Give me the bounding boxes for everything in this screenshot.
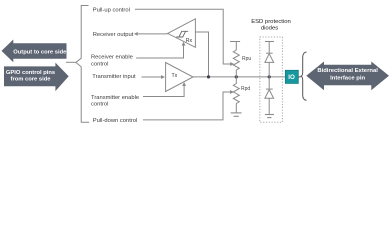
power rail for Rpu — [230, 42, 240, 51]
power rail for top ESD diode — [265, 42, 274, 54]
node junction dot 1 — [207, 75, 210, 78]
svg-text:control: control — [91, 61, 108, 67]
op-amp: receiver buffer Rx triangle — [168, 19, 196, 48]
op-amp: transmitter buffer Tx triangle — [166, 63, 193, 92]
svg-text:Bidirectional External: Bidirectional External — [317, 68, 378, 74]
ground for bottom ESD diode — [265, 115, 274, 118]
node IO pad box — [285, 70, 298, 83]
resistor Rpu — [233, 50, 239, 77]
svg-text:Rx: Rx — [186, 38, 193, 44]
wire pull-up control to Rpu — [135, 9, 231, 64]
svg-text:Pull-down control: Pull-down control — [93, 118, 137, 124]
arrow "Output to core side" — [2, 40, 68, 63]
brace pointing at IO pad — [301, 52, 307, 100]
svg-text:Receiver output: Receiver output — [93, 32, 134, 38]
svg-text:control: control — [91, 101, 108, 107]
svg-text:Rpd: Rpd — [241, 86, 250, 92]
resistor Rpd — [233, 77, 239, 113]
wire pull-down control to Rpd — [143, 92, 230, 120]
dashed box ESD — [260, 37, 283, 122]
svg-text:IO: IO — [288, 74, 295, 81]
node junction dot 2 — [235, 75, 238, 78]
svg-text:Pull-up control: Pull-up control — [93, 7, 130, 13]
arrow "Bidirectional External Interface pin" — [306, 62, 389, 91]
svg-text:Tx: Tx — [172, 73, 178, 79]
svg-text:Transmitter enable: Transmitter enable — [91, 95, 139, 101]
wire IO box to brace — [298, 76, 301, 78]
wire main IO line — [193, 76, 285, 78]
diode D1 (top ESD diode) — [265, 53, 274, 77]
wire transmitter enable — [143, 86, 184, 97]
wire Rx input from IO node — [195, 32, 208, 77]
wire transmitter input — [142, 76, 162, 78]
hysteresis symbol — [176, 31, 185, 37]
wire receiver enable — [136, 45, 183, 58]
diode D2 (bottom ESD diode) — [265, 77, 274, 115]
svg-text:ESD protection: ESD protection — [251, 19, 291, 25]
node junction dot 3 — [268, 75, 271, 78]
svg-text:Output to core side: Output to core side — [13, 50, 67, 56]
ground for Rpd — [231, 113, 242, 116]
svg-text:Transmitter input: Transmitter input — [92, 74, 136, 80]
svg-text:Rpu: Rpu — [242, 56, 251, 62]
bracket grouping control signals — [66, 6, 89, 123]
arrow "GPIO control pins from core side" — [4, 63, 69, 92]
svg-text:Interface pin: Interface pin — [330, 75, 365, 81]
svg-text:from core side: from core side — [11, 77, 52, 83]
svg-text:GPIO control pins: GPIO control pins — [6, 70, 55, 76]
svg-text:Receiver enable: Receiver enable — [91, 55, 133, 61]
wire receiver output (arrow to label) — [138, 33, 168, 35]
svg-text:diodes: diodes — [261, 26, 278, 32]
